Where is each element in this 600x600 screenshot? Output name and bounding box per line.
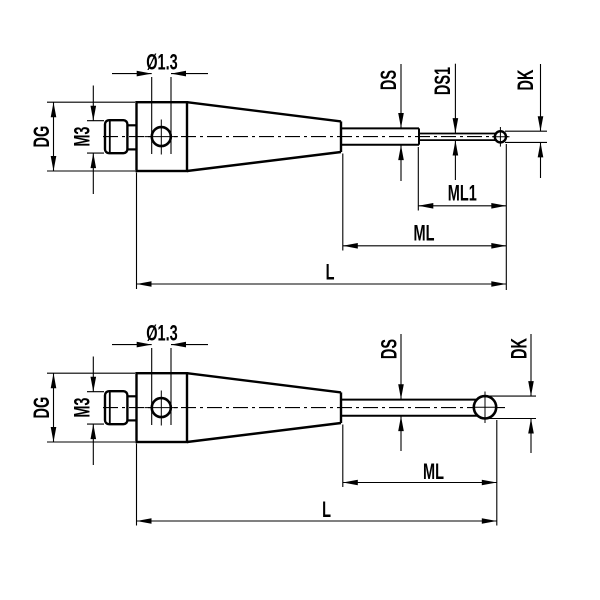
hole horizontal centerline bottom (145, 407, 179, 409)
dimension ML1 line (418, 205, 506, 207)
arrow DS1 lower (453, 141, 459, 156)
arrow M3 lower (91, 153, 97, 168)
stem DS bottom edge (341, 144, 419, 146)
svg-text:DK: DK (513, 69, 538, 90)
stem DS top edge bottom (341, 399, 478, 401)
ball tip DK bottom (474, 396, 496, 418)
arrow M3 upper (91, 106, 97, 121)
svg-text:DG: DG (29, 126, 54, 148)
arrow Ø1.3 right (171, 71, 186, 77)
dimension DG extension lines (47, 101, 135, 103)
svg-text:Ø1.3: Ø1.3 (146, 320, 177, 345)
arrow DS upper (398, 113, 404, 128)
taper cone bottom edge bottom (187, 423, 341, 442)
arrow Ø1.3 right bottom (171, 342, 186, 348)
hole vertical centerline bottom (160, 391, 162, 426)
ball horizontal centerline bottom (474, 406, 498, 408)
arrow L right (491, 281, 506, 287)
thread chamfer line (109, 121, 111, 153)
taper end face (340, 121, 342, 152)
arrow L left (137, 281, 152, 287)
hole horizontal centerline (145, 136, 179, 138)
extension line DS1 start (ML1 left) (417, 147, 419, 211)
thread M3 body (105, 120, 127, 153)
dimension Ø1.3 line left bottom (112, 344, 152, 346)
arrow ML right (491, 243, 506, 249)
arrow ML left (343, 243, 358, 249)
ball vertical centerline bottom (484, 392, 486, 424)
taper end face bottom (340, 392, 342, 423)
arrow DK upper bottom (528, 381, 534, 396)
svg-text:L: L (322, 497, 331, 522)
dimension DS arrow lines bottom (400, 334, 402, 399)
centerline top view (103, 136, 511, 138)
arrow ML1 right (491, 203, 506, 209)
arrow ML1 left (418, 203, 433, 209)
stem DS end step (418, 128, 420, 144)
ball horizontal centerline (492, 136, 510, 138)
dimension M3 line lower bottom (92, 424, 94, 465)
arrow ML left bottom (343, 480, 358, 486)
ball tip DK (495, 131, 506, 142)
arrow L right bottom (482, 518, 497, 524)
svg-text:DS1: DS1 (430, 67, 455, 95)
extension line taper end (ML left) (342, 154, 344, 251)
dimension DS1 arrow lines (454, 64, 456, 133)
holder body (137, 102, 188, 171)
arrow Ø1.3 left (137, 71, 152, 77)
cross hole (152, 127, 171, 146)
dimension M3 line upper bottom (92, 357, 94, 392)
dimension DS arrow lines (400, 64, 402, 128)
arrow ML right bottom (482, 480, 497, 486)
arrow DG bottom bottom (51, 427, 57, 442)
thread M3 body bottom (105, 391, 127, 424)
arrow DS1 upper (453, 118, 459, 133)
svg-text:DS: DS (376, 70, 401, 90)
dimension M3 extension lines (87, 120, 104, 122)
centerline bottom view (103, 407, 505, 409)
neck bottom line bottom (128, 419, 138, 421)
cross hole bottom (152, 398, 171, 417)
dimension Ø1.3 line right (171, 73, 208, 75)
dimension Ø1.3 extension lines bottom (151, 348, 153, 425)
dimension L line bottom (137, 520, 497, 522)
dimension Ø1.3 line left (112, 73, 152, 75)
arrow Ø1.3 left bottom (137, 342, 152, 348)
svg-text:ML: ML (423, 459, 444, 484)
dimension M3 line lower (92, 153, 94, 194)
arrow M3 upper bottom (91, 377, 97, 392)
extension line body left (L left) (136, 173, 138, 290)
dimension DG extension lines bottom (47, 372, 135, 374)
arrow DG top (51, 102, 57, 117)
dimension DG line bottom (53, 373, 55, 442)
svg-text:L: L (326, 259, 335, 284)
arrow DS lower bottom (398, 416, 404, 431)
arrow DG top bottom (51, 373, 57, 388)
dimension Ø1.3 extension lines (151, 77, 153, 154)
extension line taper end (ML left) bottom (342, 425, 344, 488)
taper cone top edge bottom (187, 373, 341, 392)
svg-text:Ø1.3: Ø1.3 (146, 49, 177, 74)
arrow DK upper (538, 116, 544, 131)
svg-text:M3: M3 (69, 127, 94, 147)
holder body bottom (137, 373, 188, 442)
neck bottom line (128, 148, 138, 150)
dimension M3 extension lines bottom (87, 391, 104, 393)
dimension L line (137, 283, 507, 285)
stem DS bottom edge bottom (341, 415, 478, 417)
arrow DG bottom (51, 156, 57, 171)
svg-text:DS: DS (377, 339, 402, 359)
arrow DS lower (398, 145, 404, 160)
neck top line bottom (128, 395, 138, 397)
ball vertical centerline (499, 127, 501, 147)
hole vertical centerline (160, 120, 162, 155)
labels bottom view (29, 320, 531, 521)
arrow M3 lower bottom (91, 424, 97, 439)
dimension DK arrow lines bottom (530, 334, 532, 396)
arrow DS upper bottom (398, 384, 404, 399)
svg-text:DK: DK (507, 338, 532, 359)
svg-text:DG: DG (29, 397, 54, 419)
arrow DK lower (538, 142, 544, 157)
extension line ball end (right) bottom (496, 420, 498, 526)
taper cone bottom edge (187, 152, 341, 171)
stem DS1 top edge (419, 133, 496, 135)
arrow DK lower bottom (528, 419, 534, 434)
extension line ball end (right) (505, 144, 507, 290)
dimension ML line bottom (343, 482, 497, 484)
arrow L left bottom (137, 518, 152, 524)
neck top line (128, 124, 138, 126)
extension line body left (L left) bottom (136, 444, 138, 526)
dimension DK arrow lines (540, 64, 542, 131)
dimension DK extension lines bottom (489, 395, 536, 397)
svg-text:ML1: ML1 (448, 180, 477, 205)
svg-text:M3: M3 (69, 398, 94, 418)
stem DS1 bottom edge (419, 139, 496, 141)
dimension DK extension lines (505, 130, 547, 132)
dimension ML line (343, 245, 507, 247)
dimension Ø1.3 line right bottom (171, 344, 208, 346)
svg-text:ML: ML (414, 220, 435, 245)
stem DS top edge (341, 127, 419, 129)
taper cone top edge (187, 102, 341, 121)
dimension DG line (53, 102, 55, 171)
thread chamfer line bottom (109, 392, 111, 424)
dimension M3 line upper (92, 86, 94, 121)
labels top view (29, 49, 538, 284)
